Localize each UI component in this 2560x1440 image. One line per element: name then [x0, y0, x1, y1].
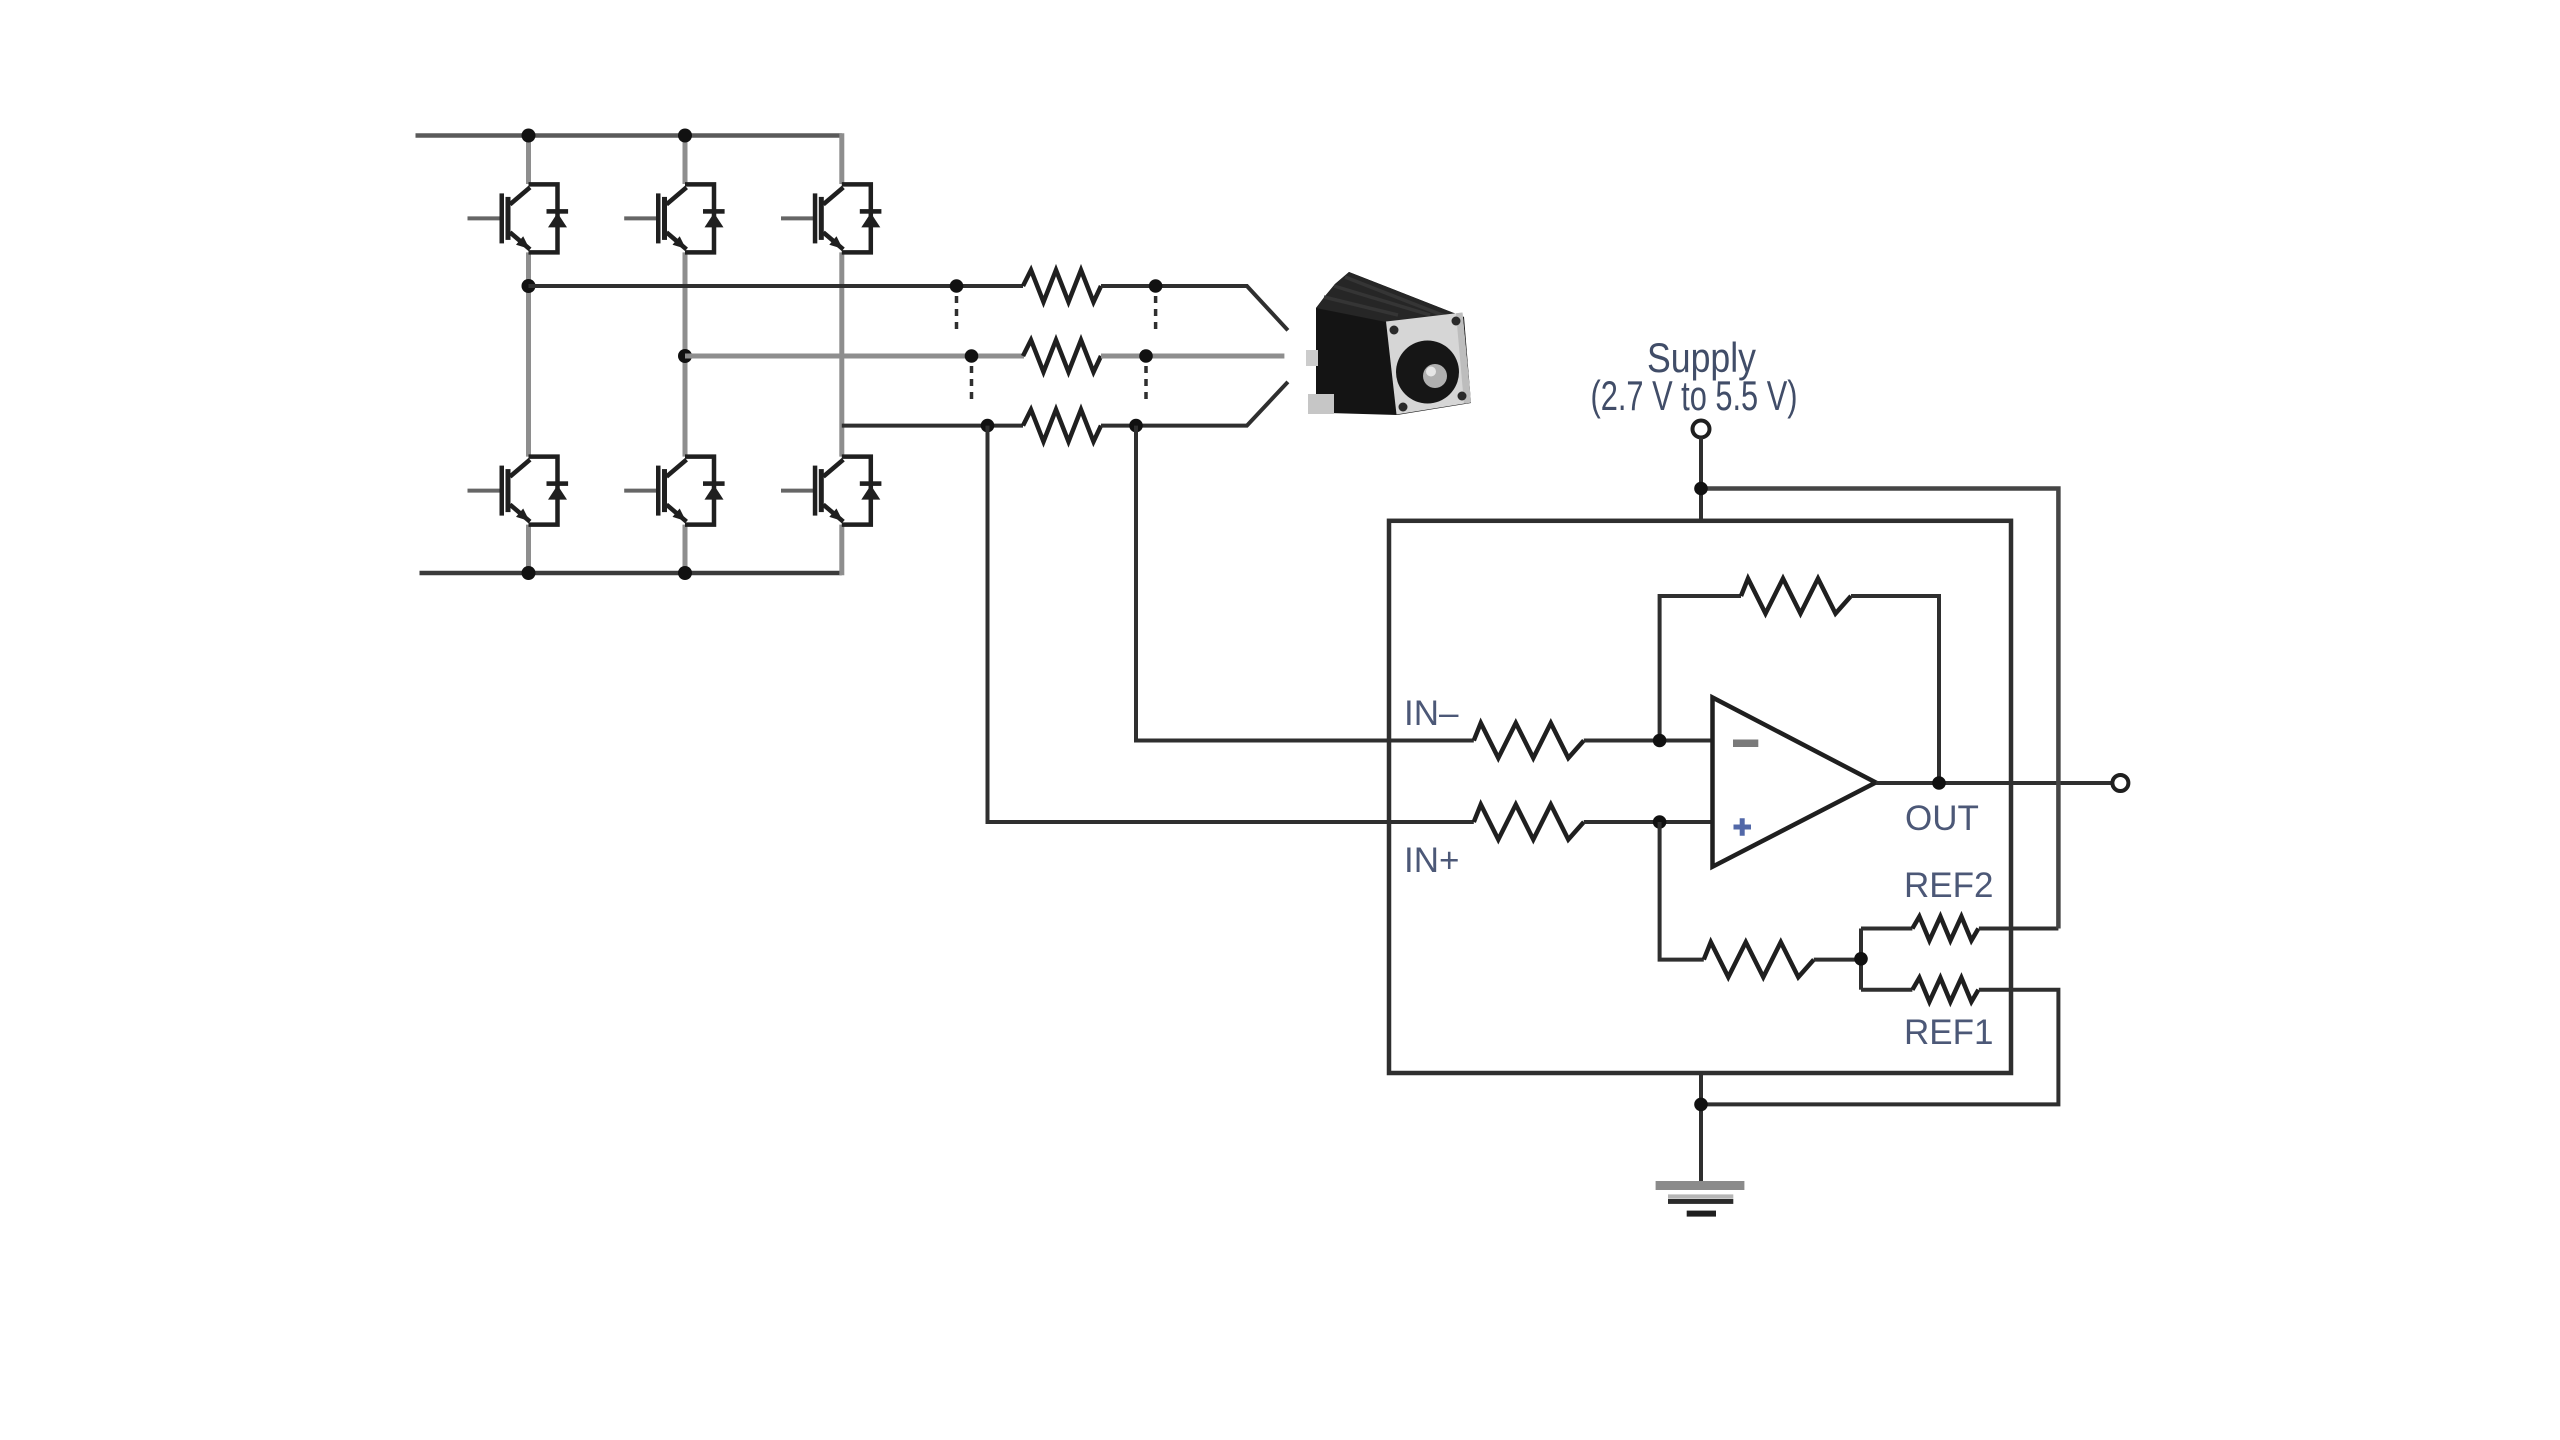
wire: leg1 low-side emitter to bottom rail — [526, 525, 531, 573]
wire: IN- resistor to inverting input — [1584, 739, 1713, 743]
node: non-inverting input junction — [1653, 815, 1667, 829]
amplifier IC boundary box U1 — [1389, 521, 2011, 1073]
terminal: OUT circle — [2112, 775, 2128, 791]
node: bottom rail / leg2 junction — [678, 566, 692, 580]
resistor gain (to reference divider) — [1704, 942, 1814, 977]
wire: leg1 emitter to phase A node — [526, 252, 531, 286]
node: phase B shunt left tap — [965, 349, 979, 363]
wire: feedback loop right vertical to OUT — [1851, 596, 1939, 783]
motor body — [1306, 272, 1471, 415]
svg-text:IN–: IN– — [1404, 694, 1459, 733]
wire: phase B shunt to motor lead — [1101, 354, 1284, 359]
wire: leg1 collector stub — [526, 136, 531, 185]
wire: phase C shunt to motor lead — [1101, 382, 1288, 426]
node: phase A tap on leg1 — [522, 279, 536, 293]
wire: REF branch vertical — [1859, 929, 1863, 990]
wire: supply over to REF2 rail — [1701, 489, 2058, 929]
wire: leg1 phase node down to low-side collector — [526, 286, 531, 457]
wire: leg2 low-side emitter to bottom rail — [683, 525, 688, 573]
node: phase B tap on leg2 — [678, 349, 692, 363]
wire: Q4 gate lead — [468, 489, 501, 493]
node: REF branch junction — [1854, 952, 1868, 966]
wire: phase C from bridge to shunt — [842, 424, 1023, 428]
transistor Q6 (phase C low side IGBT with diode) — [813, 457, 882, 525]
wire: Q6 gate lead — [781, 489, 814, 493]
transistor Q3 (phase C high side IGBT with diode) — [813, 184, 882, 252]
node: bottom rail / leg1 junction — [522, 566, 536, 580]
wire: Q2 gate lead — [624, 216, 657, 220]
wire: IN- sense line from shunt C right tap — [1136, 426, 1474, 741]
node: phase A shunt left tap — [950, 279, 964, 293]
wire: gain network from non-inverting node down — [1660, 822, 1704, 960]
svg-text:(2.7 V to 5.5 V): (2.7 V to 5.5 V) — [1591, 372, 1798, 419]
wire: Q3 gate lead — [781, 216, 814, 220]
wire: IN+ resistor to non-inverting input — [1584, 820, 1713, 824]
svg-text:REF1: REF1 — [1904, 1013, 1993, 1052]
node: ground junction — [1694, 1098, 1708, 1112]
wire: REF1 to ground return — [1701, 990, 2058, 1105]
wire: REF2 lead left — [1861, 927, 1912, 931]
wire: REF2 to supply rail — [1979, 927, 2058, 931]
wire: phase A from bridge to shunt — [529, 284, 1024, 288]
wire: dashed sense hint below phase B left tap — [970, 366, 974, 404]
wire: Q5 gate lead — [624, 489, 657, 493]
svg-text:OUT: OUT — [1905, 799, 1979, 838]
wire: Q1 gate lead — [468, 216, 501, 220]
wire: leg2 emitter down to phase B node — [683, 252, 688, 356]
wire: DC+ top rail — [416, 133, 842, 138]
transistor Q2 (phase B high side IGBT with diode) — [656, 184, 725, 252]
wire: leg3 low-side emitter to bottom rail corner — [839, 525, 844, 576]
transistor Q4 (phase A low side IGBT with diode) — [500, 457, 569, 525]
wire: leg2 collector stub — [683, 136, 688, 185]
node: OUT / feedback junction — [1932, 776, 1946, 790]
wire: IN+ sense line from shunt C left tap — [988, 426, 1474, 822]
wire: dashed sense hint below phase B right tap — [1144, 366, 1148, 404]
op-amp minus sign — [1733, 740, 1758, 748]
wire: phase B from bridge to shunt — [685, 354, 1024, 359]
node: phase C shunt right tap — [1129, 419, 1143, 433]
node: phase C shunt left tap — [981, 419, 995, 433]
resistor shunt B — [1023, 340, 1101, 372]
wire: leg3 collector from top rail corner — [839, 133, 844, 184]
node: inverting input junction — [1653, 734, 1667, 748]
wire: dashed sense hint below phase A right tap — [1154, 296, 1158, 334]
wire: feedback loop left vertical — [1660, 596, 1741, 741]
wire: dashed sense hint below phase A left tap — [955, 296, 959, 334]
wire: leg3 emitter down to phase C tap — [839, 252, 844, 456]
wire: DC- bottom rail — [420, 571, 842, 576]
wire: op-amp output to OUT terminal — [1876, 781, 2113, 785]
resistor shunt A — [1023, 270, 1101, 302]
wire: supply stem into box — [1699, 438, 1703, 521]
op-amp plus sign — [1734, 818, 1752, 836]
node: phase B shunt right tap — [1139, 349, 1153, 363]
wire: phase A shunt to motor lead — [1101, 286, 1288, 330]
svg-text:REF2: REF2 — [1904, 866, 1993, 905]
transistor Q1 (phase A high side IGBT with diode) — [500, 184, 569, 252]
op-amp U1 triangle — [1713, 698, 1876, 867]
resistor REF1 — [1912, 978, 1978, 1002]
resistor IN- input — [1474, 723, 1584, 758]
transistor Q5 (phase B low side IGBT with diode) — [656, 457, 725, 525]
resistor shunt C — [1023, 410, 1101, 442]
terminal: supply circle — [1693, 421, 1710, 438]
wire: leg2 phase node down to low-side collector — [683, 356, 688, 457]
wire: REF1 lead left — [1861, 988, 1912, 992]
node: supply junction — [1694, 482, 1708, 496]
resistor feedback — [1741, 579, 1851, 614]
svg-text:IN+: IN+ — [1404, 841, 1459, 880]
node: phase A shunt right tap — [1149, 279, 1163, 293]
node: top rail / leg1 junction — [522, 129, 536, 143]
node: top rail / leg2 junction — [678, 129, 692, 143]
wire: gain resistor to REF branch node — [1814, 958, 1861, 962]
ground symbol — [1656, 1181, 1745, 1217]
wire: ground stem from box bottom — [1699, 1073, 1703, 1190]
resistor REF2 — [1912, 917, 1978, 941]
resistor IN+ input — [1474, 805, 1584, 840]
